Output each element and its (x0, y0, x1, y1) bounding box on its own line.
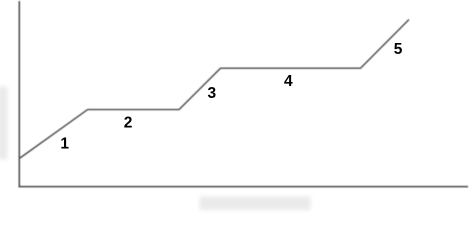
blurred-out y-axis label (0, 87, 8, 160)
y-axis (18, 1, 20, 187)
heating curve polyline (20, 20, 409, 159)
svg-text:4: 4 (284, 73, 293, 90)
x-axis (19, 186, 469, 188)
svg-text:1: 1 (60, 135, 69, 152)
svg-text:3: 3 (207, 85, 216, 102)
svg-text:2: 2 (124, 115, 133, 132)
blurred-out x-axis label (200, 197, 311, 211)
svg-text:5: 5 (394, 41, 403, 58)
